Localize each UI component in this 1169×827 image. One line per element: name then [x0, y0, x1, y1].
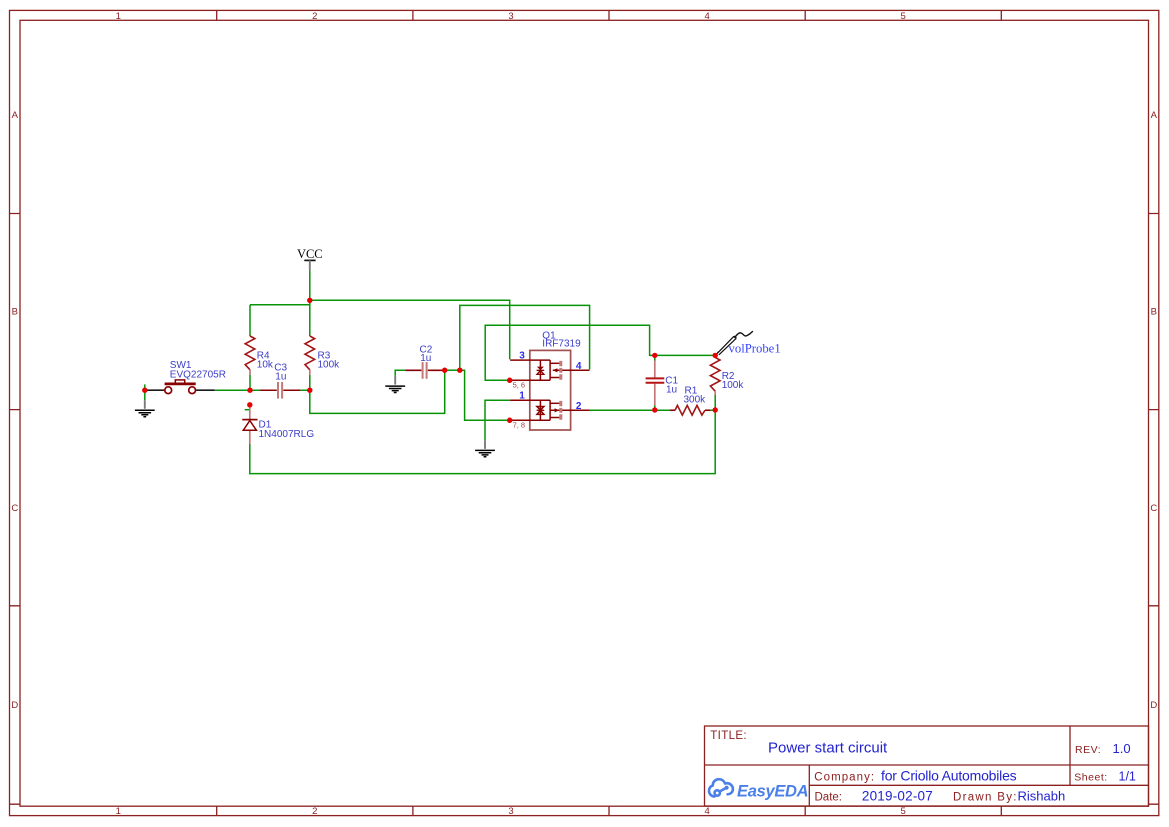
svg-text:EasyEDA: EasyEDA	[737, 783, 808, 801]
svg-text:2: 2	[312, 11, 317, 22]
svg-text:A: A	[1151, 110, 1158, 121]
svg-text:1u: 1u	[666, 385, 677, 396]
svg-text:D: D	[1150, 700, 1157, 711]
svg-text:C: C	[1150, 503, 1157, 514]
svg-text:TITLE:: TITLE:	[710, 730, 747, 742]
svg-text:5: 5	[901, 11, 906, 22]
svg-text:2: 2	[576, 401, 582, 412]
svg-text:2019-02-07: 2019-02-07	[862, 788, 933, 803]
svg-text:B: B	[1151, 307, 1157, 318]
svg-text:1: 1	[116, 11, 121, 22]
svg-text:volProbe1: volProbe1	[729, 342, 781, 356]
svg-text:A: A	[12, 110, 19, 121]
svg-text:1.0: 1.0	[1113, 741, 1131, 756]
svg-text:Power start circuit: Power start circuit	[768, 740, 888, 757]
svg-text:Company:: Company:	[814, 771, 875, 783]
svg-text:Rishabh: Rishabh	[1018, 788, 1066, 803]
svg-text:B: B	[12, 307, 18, 318]
svg-text:for Criollo Automobiles: for Criollo Automobiles	[881, 767, 1017, 783]
svg-text:1: 1	[519, 391, 525, 402]
svg-text:4: 4	[576, 361, 582, 372]
svg-text:7, 8: 7, 8	[513, 421, 526, 430]
svg-text:Sheet:: Sheet:	[1074, 772, 1107, 784]
svg-text:4: 4	[704, 806, 709, 817]
svg-text:1/1: 1/1	[1119, 770, 1136, 784]
svg-text:100k: 100k	[318, 359, 341, 370]
svg-text:4: 4	[704, 11, 709, 22]
svg-text:3: 3	[508, 806, 513, 817]
svg-text:1N4007RLG: 1N4007RLG	[259, 429, 315, 440]
svg-text:1u: 1u	[420, 353, 431, 364]
svg-text:D: D	[11, 700, 18, 711]
svg-text:2: 2	[312, 806, 317, 817]
svg-text:5: 5	[901, 806, 906, 817]
svg-text:300k: 300k	[684, 394, 707, 405]
svg-text:REV:: REV:	[1075, 744, 1101, 756]
svg-text:C: C	[11, 503, 18, 514]
svg-text:3: 3	[508, 11, 513, 22]
svg-text:VCC: VCC	[297, 247, 323, 261]
svg-text:10k: 10k	[257, 359, 274, 370]
svg-text:EVQ22705R: EVQ22705R	[170, 369, 226, 380]
svg-text:1: 1	[116, 806, 121, 817]
svg-text:1u: 1u	[275, 371, 286, 382]
svg-text:Drawn By:: Drawn By:	[953, 791, 1018, 803]
svg-text:5, 6: 5, 6	[513, 381, 526, 390]
svg-text:Date:: Date:	[815, 791, 843, 803]
svg-text:100k: 100k	[722, 380, 745, 391]
svg-text:3: 3	[519, 351, 525, 362]
svg-text:IRF7319: IRF7319	[542, 338, 581, 349]
